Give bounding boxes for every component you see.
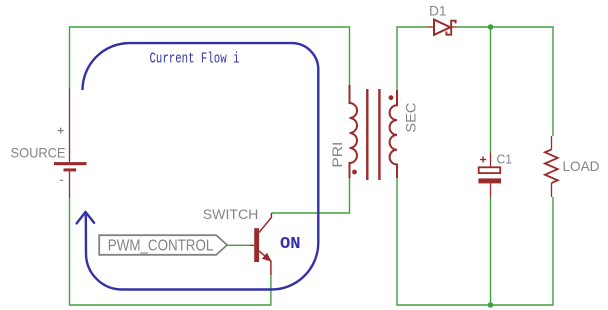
svg-text:D1: D1 — [429, 3, 447, 19]
svg-text:SWITCH: SWITCH — [203, 206, 258, 222]
svg-text:PRI: PRI — [329, 142, 345, 168]
svg-text:SOURCE: SOURCE — [11, 144, 66, 160]
svg-text:Current Flow i: Current Flow i — [150, 51, 240, 68]
svg-text:C1: C1 — [497, 152, 513, 167]
svg-text:PWM_CONTROL: PWM_CONTROL — [108, 238, 214, 255]
svg-text:ON: ON — [280, 235, 301, 254]
svg-text:LOAD: LOAD — [563, 158, 600, 174]
svg-text:SEC: SEC — [402, 103, 418, 133]
